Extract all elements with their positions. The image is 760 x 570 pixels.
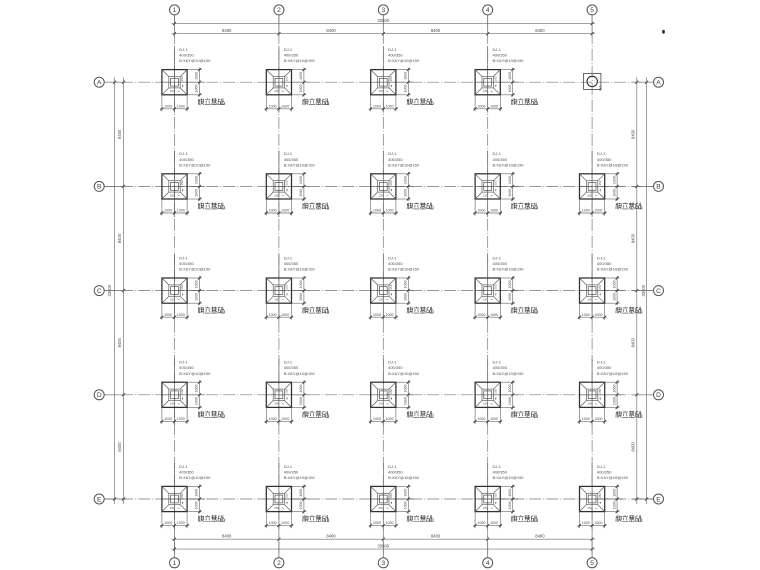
svg-text:A: A xyxy=(656,80,661,87)
svg-text:B: B xyxy=(97,184,102,191)
footing DJ-1 at B3 xyxy=(369,150,433,217)
footing DJ-1 at A2 xyxy=(264,46,328,113)
svg-text:8400: 8400 xyxy=(431,534,441,539)
column GZ at A5 xyxy=(584,73,603,90)
right overall dimension line 33600 xyxy=(641,77,648,504)
wire: axis D solid stub segments at bubbles xyxy=(104,394,653,396)
grid bubble E right xyxy=(654,494,664,504)
footing DJ-1 at C3 xyxy=(369,255,433,322)
svg-text:8400: 8400 xyxy=(630,129,635,139)
grid line axis 4 (vertical) xyxy=(487,15,489,558)
footing DJ-1 at C2 xyxy=(264,255,328,322)
wire: axis 2 solid stub segments at bubbles xyxy=(278,15,280,558)
footing DJ-1 at E4 xyxy=(473,463,537,530)
svg-text:8400: 8400 xyxy=(431,28,441,33)
svg-text:8400: 8400 xyxy=(117,337,122,347)
footing DJ-1 at D1 xyxy=(160,359,224,426)
grid bubble 1 bottom xyxy=(170,558,180,568)
grid line axis C (horizontal) xyxy=(104,290,653,292)
footing DJ-1 at A3 xyxy=(369,46,433,113)
footing DJ-1 at B2 xyxy=(264,150,328,217)
grid bubble A right xyxy=(654,77,664,87)
left bay dimension line 8400s xyxy=(117,77,125,504)
svg-text:1: 1 xyxy=(173,560,177,567)
svg-text:8400: 8400 xyxy=(222,28,232,33)
grid bubble 3 bottom xyxy=(378,558,388,568)
footing DJ-1 at D2 xyxy=(264,359,328,426)
footing DJ-1 at E2 xyxy=(264,463,328,530)
grid bubble 2 bottom xyxy=(274,558,284,568)
svg-text:8400: 8400 xyxy=(326,28,336,33)
svg-text:8400: 8400 xyxy=(535,534,545,539)
wire: axis 4 solid stub segments at bubbles xyxy=(487,15,489,558)
bottom bay dimension line 8400s xyxy=(172,534,596,541)
footing DJ-1 at E1 xyxy=(160,463,224,530)
wire: axis 3 solid stub segments at bubbles xyxy=(382,15,384,558)
svg-text:8400: 8400 xyxy=(630,233,635,243)
grid bubble B right xyxy=(654,181,664,191)
grid line axis B (horizontal) xyxy=(104,185,653,187)
grid bubble C right xyxy=(654,286,664,296)
grid bubble 4 top xyxy=(483,5,493,15)
svg-text:GZ: GZ xyxy=(599,85,603,91)
grid bubble D right xyxy=(654,390,664,400)
footing DJ-1 at C5 xyxy=(578,255,642,322)
footing DJ-1 at C1 xyxy=(160,255,224,322)
svg-text:8400: 8400 xyxy=(117,233,122,243)
grid bubble D left xyxy=(94,390,104,400)
footing DJ-1 at A4 xyxy=(473,46,537,113)
grid bubble 5 top xyxy=(587,5,597,15)
svg-text:C: C xyxy=(97,288,102,295)
svg-text:4: 4 xyxy=(486,7,490,14)
footing DJ-1 at C4 xyxy=(473,255,537,322)
svg-text:8400: 8400 xyxy=(117,442,122,452)
top bay dimension line 8400s xyxy=(172,28,596,35)
svg-text:8400: 8400 xyxy=(630,337,635,347)
grid bubble 5 bottom xyxy=(587,558,597,568)
svg-text:A: A xyxy=(97,80,102,87)
grid bubble C left xyxy=(94,286,104,296)
grid bubble 2 top xyxy=(274,5,284,15)
grid bubble A left xyxy=(94,77,104,87)
grid line axis 5 (vertical) xyxy=(591,15,593,558)
svg-text:C: C xyxy=(656,288,661,295)
svg-text:B: B xyxy=(656,184,661,191)
grid bubble 1 top xyxy=(170,5,180,15)
svg-text:8400: 8400 xyxy=(630,442,635,452)
grid line axis A (horizontal) xyxy=(104,81,653,83)
svg-text:D: D xyxy=(656,392,661,399)
grid bubble 4 bottom xyxy=(483,558,493,568)
svg-text:3: 3 xyxy=(381,7,385,14)
wire: axis 1 solid stub segments at bubbles xyxy=(174,15,176,558)
grid bubble B left xyxy=(94,181,104,191)
svg-text:5: 5 xyxy=(590,7,594,14)
wire: axis E solid stub segments at bubbles xyxy=(104,498,653,500)
footing DJ-1 at E3 xyxy=(369,463,433,530)
svg-text:2: 2 xyxy=(277,560,281,567)
grid line axis 3 (vertical) xyxy=(382,15,384,558)
svg-text:E: E xyxy=(656,496,661,503)
footing DJ-1 at A1 xyxy=(160,46,224,113)
left overall dimension line 33600 xyxy=(107,77,116,504)
svg-text:5: 5 xyxy=(590,560,594,567)
footing DJ-1 at B5 xyxy=(578,150,642,217)
svg-text:3: 3 xyxy=(381,560,385,567)
footing DJ-1 at D4 xyxy=(473,359,537,426)
svg-text:8400: 8400 xyxy=(222,534,232,539)
footing DJ-1 at D5 xyxy=(578,359,642,426)
svg-text:8400: 8400 xyxy=(117,129,122,139)
wire: axis A solid stub segments at bubbles xyxy=(104,81,653,83)
svg-text:8400: 8400 xyxy=(535,28,545,33)
grid line axis D (horizontal) xyxy=(104,394,653,396)
svg-text:2: 2 xyxy=(277,7,281,14)
grid line axis E (horizontal) xyxy=(104,498,653,500)
svg-text:4: 4 xyxy=(486,560,490,567)
svg-text:8400: 8400 xyxy=(326,534,336,539)
right bay dimension line 8400s xyxy=(630,77,638,504)
grid bubble 3 top xyxy=(378,5,388,15)
grid bubble E left xyxy=(94,494,104,504)
bottom overall dimension line 33600 xyxy=(172,544,596,551)
wire: axis C solid stub segments at bubbles xyxy=(104,290,653,292)
svg-text:D: D xyxy=(97,392,102,399)
footing DJ-1 at D3 xyxy=(369,359,433,426)
footing DJ-1 at E5 xyxy=(578,463,642,530)
svg-text:1: 1 xyxy=(173,7,177,14)
grid line axis 1 (vertical) xyxy=(174,15,176,558)
grid line axis 2 (vertical) xyxy=(278,15,280,558)
small mark top right xyxy=(662,30,665,34)
wire: axis B solid stub segments at bubbles xyxy=(104,185,653,187)
wire: axis 5 solid stub segments at bubbles xyxy=(591,15,593,558)
top overall dimension line 33600 xyxy=(172,18,596,25)
footing DJ-1 at B1 xyxy=(160,150,224,217)
footing DJ-1 at B4 xyxy=(473,150,537,217)
svg-text:E: E xyxy=(97,496,102,503)
